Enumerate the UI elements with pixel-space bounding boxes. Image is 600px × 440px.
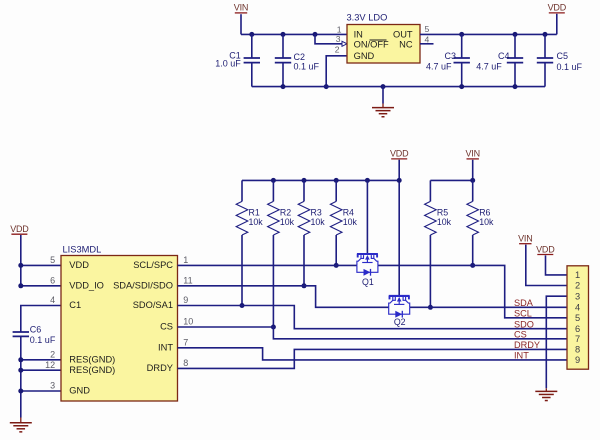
wire VDD to chip pins 5 and 6 [21, 235, 61, 286]
svg-text:10k: 10k [479, 217, 494, 227]
svg-text:9: 9 [575, 355, 580, 365]
svg-text:ON/OFF: ON/OFF [354, 40, 389, 50]
svg-text:VDD: VDD [536, 244, 555, 254]
svg-text:R1: R1 [249, 207, 260, 217]
node R5 SDA bus junction [428, 305, 433, 310]
wire CS net pin 10 [178, 326, 274, 328]
svg-text:10k: 10k [249, 217, 264, 227]
pin 3 input arrow [342, 41, 347, 46]
wire R1 to SDO line [241, 235, 243, 306]
wire SDO/SA1 net pin 9 [178, 306, 568, 329]
svg-text:VIN: VIN [465, 149, 479, 159]
transistor Q2 [389, 296, 410, 327]
wire GND pin 2 route [326, 56, 347, 87]
svg-text:1.0 uF: 1.0 uF [215, 58, 241, 68]
transistor Q1 [357, 254, 378, 287]
transistor U2 LIS3MDL chip box [61, 244, 178, 401]
wire CS net to header [273, 327, 567, 339]
wire DRDY net pin 8 [178, 349, 568, 368]
supply flag VDD (regulator output) [548, 3, 567, 13]
svg-text:SCL/SPC: SCL/SPC [133, 260, 173, 270]
svg-text:9: 9 [183, 295, 188, 305]
svg-text:SCL: SCL [514, 309, 532, 319]
wire ON/OFF tap [315, 34, 343, 43]
node C2 junction [281, 32, 286, 37]
wire SDA/SDI net pin 11 [178, 286, 389, 308]
node C2 ground junction [281, 84, 286, 89]
node Q1 gate rail junction [365, 178, 370, 183]
svg-text:SDO: SDO [514, 319, 534, 329]
svg-text:IN: IN [354, 30, 363, 40]
svg-text:R4: R4 [343, 207, 354, 217]
wire VIN stub [240, 14, 242, 34]
svg-text:11: 11 [183, 275, 192, 285]
wire NC stub [420, 43, 434, 45]
wire VIN rail [430, 179, 472, 181]
op-amp U1 3.3V LDO regulator box [347, 13, 421, 63]
node pin3 junction [18, 389, 23, 394]
svg-text:10k: 10k [343, 217, 358, 227]
svg-text:Q1: Q1 [362, 277, 374, 287]
node R4 SCL junction [334, 263, 339, 268]
wire VIN stub [472, 160, 474, 181]
svg-text:C3: C3 [444, 51, 456, 61]
wire R4 to SCL line [335, 235, 337, 265]
node pin12 junction [18, 368, 23, 373]
wire SCL bus net [378, 265, 567, 317]
supply flag VIN (pullup rail) [465, 149, 479, 159]
supply flag VDD (pullup rail) [390, 149, 409, 159]
svg-text:GND: GND [354, 51, 375, 61]
wire Q1 gate line [366, 180, 368, 253]
wire top ground rail [252, 86, 545, 88]
svg-text:1: 1 [575, 270, 580, 280]
capacitor C6 [13, 324, 56, 417]
svg-text:CS: CS [160, 322, 173, 332]
svg-text:10k: 10k [437, 217, 452, 227]
svg-text:10: 10 [183, 317, 193, 327]
svg-text:6: 6 [50, 275, 55, 285]
svg-text:4.7 uF: 4.7 uF [476, 62, 502, 72]
svg-text:Q2: Q2 [394, 317, 406, 327]
wire SDA bus net [410, 306, 567, 308]
node R2 rail junction [271, 178, 276, 183]
supply flag VIN (regulator input) [234, 3, 248, 13]
svg-text:10k: 10k [280, 217, 295, 227]
capacitor C3 [426, 34, 470, 86]
svg-text:SDA: SDA [514, 298, 534, 308]
wire ground stem top [382, 87, 384, 104]
node ground symbol junction [381, 84, 386, 89]
svg-text:NC: NC [399, 40, 413, 50]
capacitor C5 [537, 34, 583, 86]
node VDD rail junction [397, 178, 402, 183]
svg-text:VDD: VDD [10, 224, 29, 234]
node C5 junction [543, 32, 548, 37]
wire VDD stub top right [556, 14, 558, 35]
wire R5 to SDA bus line [429, 235, 431, 307]
svg-text:VIN: VIN [234, 3, 248, 13]
svg-text:5: 5 [50, 255, 55, 265]
wire R2 to CS line [272, 235, 274, 327]
svg-text:2: 2 [50, 349, 55, 359]
node R3 rail junction [302, 178, 307, 183]
svg-text:INT: INT [514, 351, 529, 361]
node R3 SDA junction [302, 283, 307, 288]
svg-text:VDD: VDD [548, 3, 567, 13]
wire VDD stub / Q2 gate line [398, 160, 400, 295]
wire OUT rail [420, 33, 557, 35]
svg-text:OUT: OUT [393, 30, 413, 40]
svg-text:7: 7 [575, 334, 580, 344]
svg-text:DRDY: DRDY [514, 340, 540, 350]
capacitor C4 [476, 34, 523, 86]
wire GND header pin 3 to ground [546, 296, 567, 388]
svg-text:RES(GND): RES(GND) [69, 355, 115, 365]
svg-text:RES(GND): RES(GND) [69, 365, 115, 375]
node VDD pin6 corner [18, 283, 23, 288]
svg-text:0.1 uF: 0.1 uF [30, 335, 56, 345]
capacitor C2 [275, 34, 320, 86]
svg-text:INT: INT [158, 343, 173, 353]
wire RES pin 2 stub [21, 359, 61, 361]
svg-text:5: 5 [425, 24, 430, 34]
svg-text:1: 1 [183, 255, 188, 265]
node R6 SCL bus junction [470, 263, 475, 268]
node C4 ground junction [513, 84, 518, 89]
wire SCL/SPC net pin 1 [178, 264, 357, 266]
svg-text:6: 6 [575, 324, 580, 334]
supply flag VDD (chip left) [10, 224, 29, 234]
resistor R3 [298, 180, 325, 235]
svg-text:R3: R3 [311, 207, 322, 217]
svg-text:LIS3MDL: LIS3MDL [63, 244, 102, 254]
svg-text:5: 5 [575, 313, 580, 323]
node VIN rail junction [470, 178, 475, 183]
ground symbol (header) [535, 391, 557, 400]
svg-text:3: 3 [575, 291, 580, 301]
svg-text:8: 8 [575, 345, 580, 355]
svg-text:3: 3 [50, 381, 55, 391]
svg-text:8: 8 [183, 358, 188, 368]
node pin2 junction [18, 357, 23, 362]
ground symbol (regulator) [372, 108, 394, 117]
svg-text:SDA/SDI/SDO: SDA/SDI/SDO [113, 281, 173, 291]
node VDD pin5 junction [18, 263, 23, 268]
svg-text:C4: C4 [498, 51, 510, 61]
wire R3 to SDA line [303, 235, 305, 286]
resistor R4 [330, 180, 357, 235]
node R4 rail junction [334, 178, 339, 183]
node C4 junction [513, 32, 518, 37]
wire pin 5 stub [21, 264, 61, 266]
svg-text:2: 2 [335, 44, 340, 54]
svg-text:2: 2 [575, 281, 580, 291]
svg-text:VDD_IO: VDD_IO [69, 281, 104, 291]
wire RES pin 12 stub [21, 369, 61, 371]
node C3 ground junction [459, 84, 464, 89]
svg-text:1: 1 [337, 25, 342, 35]
node C3 junction [459, 32, 464, 37]
wire C1 pin 4 route [21, 306, 61, 333]
resistor R6 [467, 180, 494, 235]
svg-text:GND: GND [69, 386, 90, 396]
svg-text:VIN: VIN [518, 234, 532, 244]
node R1 SDO junction [240, 303, 245, 308]
connector J1 header box [567, 266, 589, 369]
wire IN rail [241, 33, 347, 35]
svg-text:10k: 10k [311, 217, 326, 227]
svg-text:R5: R5 [437, 207, 448, 217]
svg-text:C1: C1 [69, 300, 81, 310]
wire GND pin 3 stub [21, 390, 61, 392]
svg-text:CS: CS [514, 330, 527, 340]
svg-text:VDD: VDD [390, 149, 409, 159]
wire VIN to header pin 2 [526, 245, 567, 286]
supply flag VDD (header) [536, 244, 555, 254]
capacitor C1 [215, 34, 260, 86]
resistor R5 [425, 180, 452, 235]
svg-text:SDO/SA1: SDO/SA1 [133, 300, 173, 310]
wire VDD to header pin 1 [546, 255, 568, 275]
svg-text:R6: R6 [479, 207, 490, 217]
svg-text:C6: C6 [30, 324, 42, 334]
resistor R2 [268, 180, 295, 235]
svg-text:4.7 uF: 4.7 uF [426, 62, 452, 72]
svg-text:R2: R2 [280, 207, 291, 217]
node R2 CS junction [271, 325, 276, 330]
wire R6 to SCL bus line [472, 235, 474, 265]
svg-text:12: 12 [45, 360, 55, 370]
supply flag VIN (header) [518, 234, 532, 244]
svg-text:4: 4 [575, 303, 580, 313]
svg-text:VDD: VDD [69, 260, 89, 270]
svg-text:3.3V LDO: 3.3V LDO [347, 13, 388, 23]
wire INT net pin 7 [178, 348, 568, 360]
wire VDD rail [242, 179, 399, 181]
resistor R1 [236, 180, 263, 235]
svg-text:DRDY: DRDY [147, 363, 173, 373]
svg-text:C5: C5 [557, 51, 569, 61]
node LDO ground junction [324, 84, 329, 89]
svg-text:0.1 uF: 0.1 uF [557, 62, 583, 72]
svg-text:7: 7 [183, 337, 188, 347]
ground symbol (chip left) [10, 423, 32, 432]
node C1 junction [249, 32, 254, 37]
svg-text:0.1 uF: 0.1 uF [294, 62, 320, 72]
svg-text:4: 4 [50, 295, 55, 305]
svg-text:3: 3 [336, 34, 341, 44]
node ON/OFF tap junction [313, 32, 318, 37]
